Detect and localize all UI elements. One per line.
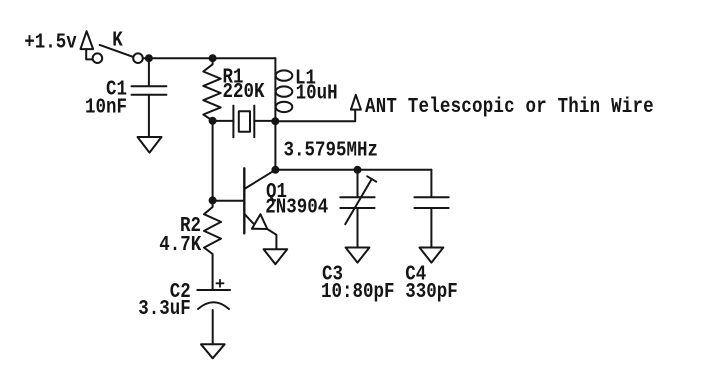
svg-text:10:80pF: 10:80pF xyxy=(321,280,394,304)
wire C2 to ground xyxy=(212,310,214,344)
ground under C4 xyxy=(420,248,444,263)
wire collector rail xyxy=(275,169,431,171)
svg-text:3.5795MHz: 3.5795MHz xyxy=(284,138,378,162)
switch K lever xyxy=(100,45,132,57)
wire collector xyxy=(274,121,276,170)
wire crystal left xyxy=(213,120,234,122)
ground under C1 xyxy=(138,137,162,153)
svg-text:ANT Telescopic or Thin Wire: ANT Telescopic or Thin Wire xyxy=(365,94,654,118)
svg-text:+1.5v: +1.5v xyxy=(24,30,77,54)
power +1.5v supply arrow xyxy=(81,31,94,59)
capacitor C2 electrolytic xyxy=(197,280,230,309)
capacitor C1 xyxy=(132,86,167,95)
svg-text:K: K xyxy=(112,28,123,52)
switch K terminal 2 xyxy=(133,53,143,63)
junction collector node xyxy=(271,166,279,174)
resistor R1 xyxy=(203,58,220,120)
junction base node xyxy=(209,196,217,204)
svg-text:220K: 220K xyxy=(223,79,265,103)
capacitor C3 variable xyxy=(340,170,376,248)
antenna arrow xyxy=(351,95,361,110)
switch K terminal 1 xyxy=(93,53,103,63)
ground under Q1 emitter xyxy=(264,249,288,264)
wire top rail xyxy=(144,57,276,59)
svg-text:10nF: 10nF xyxy=(85,95,127,119)
svg-text:3.3uF: 3.3uF xyxy=(138,296,191,320)
wire antenna feed xyxy=(275,110,355,121)
junction switch / C1 node xyxy=(145,54,153,62)
ground under C3 xyxy=(346,248,370,263)
wire R1 bottom to base node xyxy=(212,121,214,201)
svg-text:330pF: 330pF xyxy=(405,280,458,304)
svg-text:2N3904: 2N3904 xyxy=(265,195,328,219)
resistor R2 xyxy=(204,201,221,289)
ground under C2 xyxy=(201,344,225,358)
wire C1 branch xyxy=(148,58,150,85)
junction L1 bottom / crystal right xyxy=(271,117,279,125)
junction C3 node xyxy=(354,166,362,174)
wire crystal right xyxy=(254,120,275,122)
transistor Q1 xyxy=(244,168,276,249)
junction R1 top xyxy=(209,54,217,62)
crystal Y1 xyxy=(233,106,254,138)
capacitor C4 xyxy=(414,170,448,248)
wire C1 to ground xyxy=(148,95,150,137)
junction crystal left / R1 bottom xyxy=(209,117,217,125)
inductor L1 xyxy=(275,58,292,121)
svg-text:4.7K: 4.7K xyxy=(159,232,201,256)
wire base xyxy=(213,200,244,202)
svg-text:10uH: 10uH xyxy=(296,81,338,105)
